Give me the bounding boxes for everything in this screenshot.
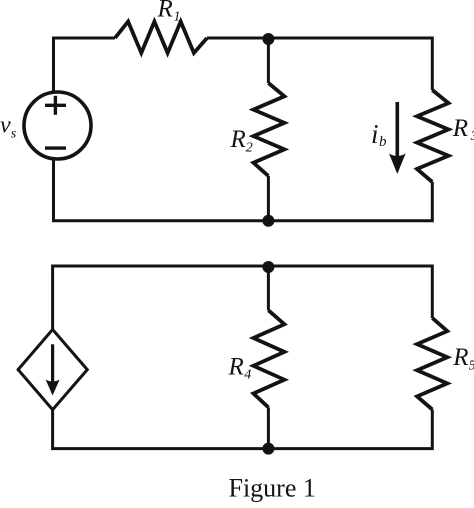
resistor R1	[115, 22, 207, 54]
label vs	[0, 113, 17, 142]
wire: node B to bottom-left corner up to voltage source bottom	[54, 159, 269, 221]
svg-text:2: 2	[246, 141, 253, 156]
resistor R4	[253, 310, 284, 407]
node C (lower circuit top junction dot)	[262, 261, 274, 273]
svg-text:R: R	[157, 0, 173, 23]
label R1	[157, 0, 181, 25]
node B (bottom junction dot)	[262, 215, 274, 227]
wire: R5 bottom to bottom-right corner to node D	[268, 410, 432, 449]
svg-text:s: s	[11, 127, 17, 142]
wire: node A down to R2	[267, 38, 270, 83]
label ib	[371, 119, 387, 150]
svg-text:5: 5	[469, 359, 474, 374]
label R5	[452, 344, 474, 374]
svg-text:R: R	[228, 354, 244, 381]
wire: top-left from voltage source top up and right to R1	[54, 38, 116, 92]
voltage source VS	[24, 92, 91, 159]
wire: R3 bottom to bottom-right corner to node B	[268, 182, 432, 221]
resistor R5	[417, 318, 447, 410]
svg-text:3: 3	[470, 129, 474, 144]
wire: node A to top-right corner down to R3	[268, 38, 432, 90]
wire: R4 bottom to node D	[267, 407, 270, 448]
node A (top junction dot)	[262, 33, 274, 45]
wire: R1 right to node A	[207, 37, 268, 40]
svg-text:1: 1	[174, 10, 181, 25]
svg-text:b: b	[379, 134, 387, 150]
svg-text:4: 4	[244, 368, 251, 383]
svg-text:Figure 1: Figure 1	[229, 474, 316, 503]
svg-text:R: R	[230, 126, 246, 153]
wire: dependent source top up and right to node C	[53, 266, 269, 330]
svg-text:i: i	[371, 119, 379, 149]
svg-text:R: R	[452, 344, 468, 371]
wire: R2 bottom to node B	[267, 176, 270, 221]
wire: node D to bottom-left corner up to dependent source bottom	[53, 410, 269, 449]
label R2	[230, 126, 253, 156]
wire: node C to top-right corner down to R5	[268, 266, 432, 318]
resistor R3	[417, 90, 449, 182]
resistor R2	[253, 83, 284, 176]
svg-text:R: R	[452, 115, 468, 142]
current arrow ib	[389, 102, 406, 174]
label R3	[452, 115, 474, 144]
dependent current source I1 (diamond with down arrow)	[18, 330, 87, 410]
label R4	[228, 354, 252, 383]
node D (lower circuit bottom junction dot)	[262, 443, 274, 455]
wire: node C down to R4	[267, 266, 270, 310]
svg-text:v: v	[0, 113, 11, 139]
caption Figure 1	[229, 474, 316, 503]
